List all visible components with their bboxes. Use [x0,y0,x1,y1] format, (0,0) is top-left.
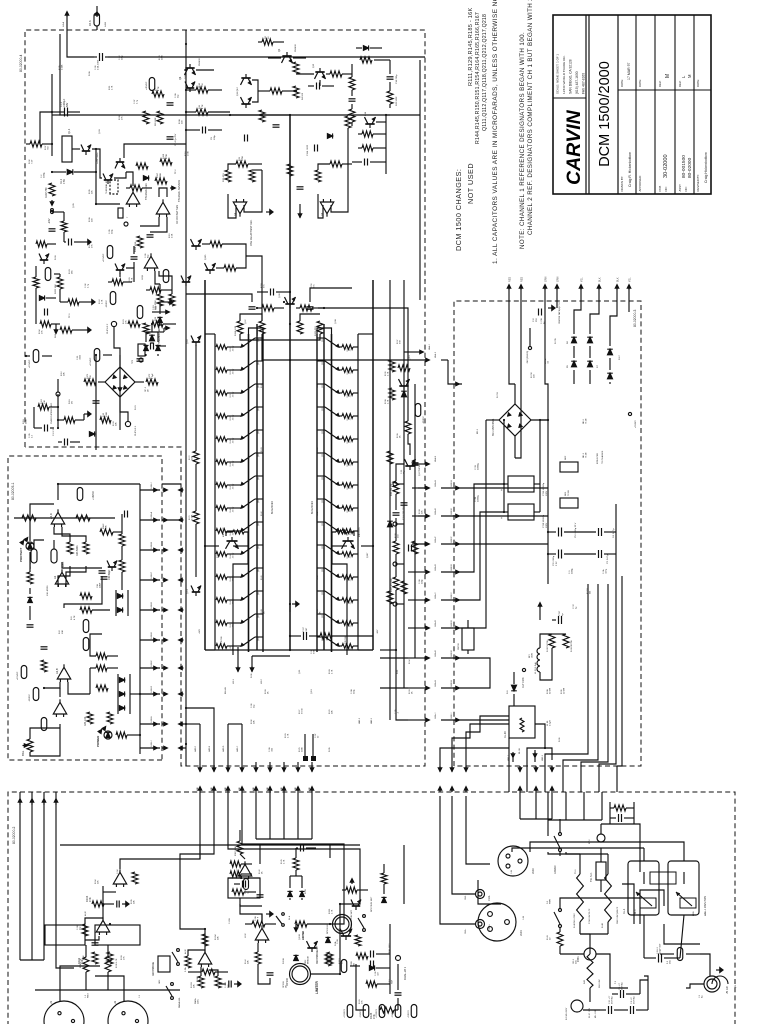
resistor R45 [107,712,113,724]
wire diode feed [573,370,575,384]
wire U32 out [59,688,61,697]
relay RL1 soft start [668,861,699,915]
svg-text:NO:: NO: [664,186,668,191]
two comparator opamps U104 [233,202,247,214]
svg-text:Q216: Q216 [322,499,324,503]
op-amp U31B comparator [55,572,69,584]
wire reg top [51,74,53,156]
resistor R42 MU-220V [587,954,593,988]
svg-text:H1B-D: H1B-D [151,602,153,609]
resistor R709 [563,634,569,648]
svg-text:J103: J103 [531,868,535,874]
svg-text:130: 130 [398,534,400,538]
resistor R20 [362,145,373,151]
resistor R250 emitter lower bank [338,415,342,417]
svg-text:RV-2: RV-2 [589,839,591,844]
wire sec bundle inside supply [508,738,510,766]
switch S1 power [554,912,560,924]
svg-text:R-50: R-50 [261,283,263,288]
svg-text:470K: 470K [166,153,168,159]
transistor Q123 output NPN MJL21193 [242,343,249,348]
capacitor C34 [124,511,126,518]
binding post CH1+ [476,920,485,929]
svg-text:.33 5W: .33 5W [349,415,351,421]
wire AC neutral [686,984,704,988]
svg-text:R-29: R-29 [329,709,331,714]
svg-text:RLY CMN: RLY CMN [522,677,525,688]
wire soft start bus [547,792,549,820]
resistor R251 emitter lower bank [338,392,342,394]
capacitor C66 reg [68,239,70,246]
svg-text:80-02000: 80-02000 [687,157,693,178]
base bus upper bank [248,334,250,652]
svg-text:T-1: T-1 [615,980,617,984]
svg-text:Q157: Q157 [217,552,219,558]
svg-text:Q215: Q215 [322,522,324,526]
capacitor C111 feedback [249,308,256,310]
svg-text:C4 .04 7µ: C4 .04 7µ [613,528,615,538]
ground R04 [84,329,88,331]
svg-text:BLU: BLU [705,911,707,916]
svg-text:CMN: CMN [532,653,534,658]
svg-text:R116: R116 [163,153,165,159]
svg-text:J104: J104 [519,930,523,936]
svg-text:100: 100 [192,456,194,460]
svg-text:R119: R119 [351,960,353,966]
capacitor C117 clip [137,360,144,362]
varistor MOV R-3 MU-110N [571,1000,583,1012]
resistor R147 emitter upper bank [216,483,227,488]
capacitor C67 [131,258,138,260]
svg-text:.33 5W: .33 5W [232,415,234,421]
svg-text:C-06: C-06 [419,579,421,584]
capacitor C33 [41,648,48,650]
svg-text:NOT USED: NOT USED [466,163,475,204]
svg-text:NOTE: CHANNEL 1 REFERENCE DES: NOTE: CHANNEL 1 REFERENCE DESIGNATORS BE… [519,32,526,249]
svg-text:BR1 KBPC3506: BR1 KBPC3506 [492,418,495,436]
op-amp U102A CH2 buffer [198,952,212,964]
svg-text:CH1+: CH1+ [465,928,467,934]
svg-text:4.7K: 4.7K [132,277,134,282]
svg-text:H8-2: H8-2 [261,678,263,684]
svg-text:1.5µH: 1.5µH [550,720,552,726]
capacitor C9 100p [202,127,204,134]
resistor R139 2.7K [389,360,395,372]
svg-text:10K: 10K [106,525,108,529]
svg-text:4.7K: 4.7K [202,104,204,109]
svg-text:C-702: C-702 [545,357,547,364]
svg-text:TS1 N.C.: TS1 N.C. [590,872,593,882]
test point circle [56,392,60,396]
diode D34 [119,692,124,697]
resistor R143b input [230,861,241,867]
svg-text:REV:: REV: [658,80,662,87]
diff pair Q11 [241,103,250,105]
svg-text:47K: 47K [88,897,92,902]
svg-text:H8A-J: H8A-J [428,344,431,350]
resistor R31 VI [387,451,393,464]
svg-text:Q223: Q223 [322,338,324,342]
svg-text:R-26: R-26 [129,277,131,282]
svg-text:H4B: H4B [225,787,227,791]
pill R41 feed [83,620,89,633]
transistor Q222 output PNP MJL21194 [317,360,325,362]
svg-text:H4-B: H4-B [105,21,107,27]
svg-text:Q11 Q12: Q11 Q12 [237,87,239,96]
resistor R30b 10K [38,404,49,410]
svg-text:R-33: R-33 [113,421,115,426]
svg-text:1.5K: 1.5K [172,233,174,238]
svg-text:C3 1 000µ: C3 1 000µ [553,555,555,566]
svg-text:A3: A3 [53,575,57,579]
svg-text:R-8: R-8 [59,630,61,634]
transistor Q117 output NPN MJL21193 [242,481,249,486]
wire diode lim [289,898,291,900]
resistor R31 [27,572,33,584]
pill +15VDC mid [94,349,100,362]
thermal sensor flag [172,186,177,190]
op-amp U107 power amp input [238,864,252,876]
wire cap bank [548,553,556,555]
svg-text:C-203: C-203 [229,917,231,924]
svg-text:.33 5W: .33 5W [349,576,351,582]
svg-text:.0022: .0022 [80,354,82,360]
resistor R119 1.5K [137,236,143,248]
jack J103 speakon [498,846,528,876]
svg-text:R-34: R-34 [409,659,411,664]
op-amp U102 thermal ref [126,192,140,204]
svg-text:U-3C: U-3C [245,933,247,938]
svg-text:.33 5W: .33 5W [349,645,351,651]
transistor Q211 output PNP MJL21194 [317,613,325,615]
flag H9B-2 relay out [534,750,536,762]
resistor R141 emitter upper bank [216,621,227,626]
pill -15VDC pair b [51,549,57,563]
svg-text:GRN: GRN [545,276,548,282]
connector stubs box B bottom [140,747,160,749]
transistor Q60 [40,259,49,261]
svg-text:R-36: R-36 [397,433,399,438]
svg-text:C5 1 000µ 35 V: C5 1 000µ 35 V [575,522,577,538]
resistor C-08 27F chain [252,921,265,927]
svg-text:H9A-D: H9A-D [434,564,437,571]
svg-text:R-28: R-28 [329,669,331,674]
svg-text:C-07: C-07 [315,733,317,738]
resistor R121 332 [317,321,323,334]
relay contact [535,724,545,748]
svg-text:R-3 MU-220V: R-3 MU-220V [566,1007,568,1020]
svg-text:50 5W: 50 5W [550,688,552,694]
svg-text:Q1,2: Q1,2 [68,128,71,134]
wire pills to opamp [34,540,44,549]
svg-text:H4B: H4B [239,787,241,791]
svg-text:10K: 10K [86,956,88,960]
svg-text:Q-08: Q-08 [335,319,337,324]
svg-text:H9A-K: H9A-K [434,455,437,462]
svg-text:MJL21193: MJL21193 [270,501,274,514]
resistor R31b [64,417,75,423]
svg-text:R-38: R-38 [385,399,387,404]
wire H8A flags [236,668,240,673]
wire caps to bridge [503,420,505,512]
diode D10 [363,46,368,51]
relay RL100 [509,706,535,738]
svg-text:D-705: D-705 [555,337,557,344]
svg-text:(F1: (F1 [735,984,737,988]
wire limiter bottom bus [389,924,391,994]
svg-text:R-40: R-40 [261,609,263,614]
svg-text:10K: 10K [62,630,64,634]
resistor R203 feedback [185,956,191,968]
svg-text:C-08: C-08 [351,689,353,694]
svg-text:+: + [500,517,504,519]
capacitor C102 1000uF 50V [64,108,66,117]
pill R51 feed [33,688,39,701]
ground C201 [234,983,238,985]
wire posts to relay bus [440,796,475,924]
svg-text:H1B-G: H1B-G [151,686,153,693]
svg-text:BRIDGE: BRIDGE [308,955,310,964]
svg-text:H9B-B: H9B-B [451,508,453,515]
svg-text:C30 68pF: C30 68pF [108,569,111,580]
svg-text:4.7K: 4.7K [112,85,114,90]
transistor Q217 output PNP MJL21194 [317,475,325,477]
svg-text:2.2: 2.2 [32,434,34,438]
capacitor C-18 220uF 50V [658,954,660,963]
svg-text:R-72: R-72 [189,455,191,460]
diode D106 [327,134,332,139]
svg-text:47p: 47p [80,926,82,930]
wires H4 into amp [199,724,201,762]
svg-text:17 MAR 97: 17 MAR 97 [627,62,631,80]
svg-text:Q123: Q123 [258,338,260,342]
svg-text:C-01: C-01 [95,65,97,70]
svg-text:R-05: R-05 [59,65,61,70]
resistor R14 100 [293,86,299,98]
rail wire lower -V [372,280,374,650]
svg-text:+15VDC: +15VDC [17,671,19,680]
resistor R39 10K [80,607,92,613]
svg-text:Q212: Q212 [322,591,324,595]
switch S4 parallel [166,986,172,996]
svg-text:J5 AC: J5 AC [725,985,729,994]
svg-text:Q-92: Q-92 [187,339,189,344]
svg-text:250V AC: 250V AC [633,996,636,1004]
pill bottom row 1 [347,1005,353,1018]
svg-text:R-07: R-07 [45,145,47,150]
svg-text:100K: 100K [302,747,304,752]
svg-text:DPST/LIM SMT: DPST/LIM SMT [371,896,373,912]
svg-text:22K: 22K [98,880,100,884]
svg-text:4.7K: 4.7K [102,299,104,304]
svg-text:C-09: C-09 [375,971,377,976]
pill -15VDC mid2 [163,270,169,283]
flag -24V F NEG [528,346,531,349]
resistor R252 emitter lower bank [338,369,342,371]
svg-text:R-08: R-08 [179,119,181,124]
svg-text:BRN: BRN [693,911,695,916]
svg-text:R38 F: R38 F [103,523,105,529]
svg-text:M: M [687,74,692,78]
board outline 80-02000-3 power supply board (dashed) [454,301,641,766]
svg-text:D-06: D-06 [89,71,91,76]
ground R205 [88,301,92,303]
resistor R137 [398,365,410,371]
ground aux [266,913,270,915]
resistor R136 bottom [405,421,411,434]
resistor R33 500K [67,542,73,554]
transistor Q6 2N5400 [185,67,194,69]
wire diode row [117,674,119,714]
capacitor C40 line [618,814,620,822]
svg-text:D-03: D-03 [55,255,57,260]
capacitor C21 VI [412,464,419,466]
svg-text:H9B-1: H9B-1 [508,754,510,761]
svg-text:J-04: J-04 [511,869,513,874]
capacitor C142 [267,974,274,976]
svg-text:S-1: S-1 [547,900,549,904]
current source Q192 top [192,341,201,343]
svg-text:R-201: R-201 [191,981,193,988]
svg-text:186: 186 [72,270,74,274]
varistor RV2 [597,834,605,842]
svg-text:C-04: C-04 [117,869,119,874]
arrow flags H2 wires [18,798,22,803]
transformer secondary wires RED GRN YEL BLK [508,766,510,792]
resistor R708 5W [549,634,555,648]
svg-text:47K: 47K [124,956,126,960]
svg-text:4.7K: 4.7K [74,615,76,620]
svg-text:47K: 47K [42,330,44,334]
wire BAL [30,724,60,756]
capacitor C38 10MF [101,578,108,580]
svg-text:R172: R172 [149,373,151,379]
AC inlet J5 [704,976,720,992]
svg-text:Q111: Q111 [258,614,260,618]
svg-text:J-5: J-5 [699,994,701,998]
svg-text:R-26: R-26 [285,733,287,738]
resistor R46 POWER led [116,732,127,738]
svg-text:R-204: R-204 [215,933,217,940]
capacitor C143 [300,845,302,852]
pill R50 feed [21,666,27,679]
svg-text:C-09: C-09 [311,649,313,654]
svg-text:Q-16: Q-16 [409,355,411,360]
connector pairs box A to box D vertical [426,718,431,722]
svg-text:MOUNTED: MOUNTED [597,453,599,464]
svg-text:15A: 15A [669,960,672,964]
svg-text:LIMITER: LIMITER [303,930,305,940]
resistor R38F 10K [100,529,113,535]
svg-text:kkk: kkk [590,590,592,594]
svg-text:7.5V: 7.5V [32,159,34,164]
svg-text:NE2: NE2 [565,455,567,460]
resistor R13b 100K [100,417,111,423]
svg-text:+45VDC: +45VDC [146,81,148,90]
svg-text:C-18 .2: C-18 .2 [657,946,659,954]
ground comparator [266,211,270,213]
rail wire upper +V [204,280,206,650]
svg-text:GRN: GRN [557,276,560,282]
resistor R153 emitter upper bank [216,345,227,350]
transistor Q121 output NPN MJL21193 [242,389,249,394]
svg-text:Q222: Q222 [322,361,324,365]
svg-text:1K: 1K [400,435,402,438]
svg-text:47K: 47K [122,116,124,120]
capacitor C31 [27,626,34,628]
capacitor C704 .047 [598,550,600,558]
svg-text:10: 10 [550,937,552,940]
svg-text:DP100 LB: DP100 LB [327,923,329,934]
diff pair Q12 [241,77,250,79]
flag +45VDC mid [426,462,431,466]
svg-text:BLK: BLK [617,277,620,282]
transistor Q215 output PNP MJL21194 [317,521,325,523]
resistor R37 [83,542,89,554]
diode D63 mid [158,317,163,322]
svg-text:+: + [500,489,504,491]
svg-text:R-54: R-54 [317,383,319,388]
pill R42 feed [83,638,89,651]
LED CLIP-LR2 [111,321,116,326]
capacitor C114 .0022 [314,145,316,152]
svg-text:RED: RED [509,277,512,282]
svg-text:.01: .01 [548,360,550,364]
svg-text:10K: 10K [44,400,46,404]
op-amp U31 mid wiring [62,562,102,568]
arrow flag L100 out [538,602,542,607]
svg-text:D1 2: D1 2 [619,355,621,360]
svg-text:Q112: Q112 [258,591,260,595]
wire Q67 [119,273,121,277]
svg-text:Q13: Q13 [313,63,315,68]
svg-text:2K: 2K [412,691,414,694]
svg-text:RED: RED [521,277,524,282]
svg-text:-15VDC: -15VDC [29,694,31,702]
svg-text:1000µ: 1000µ [572,567,574,574]
capacitor C63 mid [150,343,152,350]
svg-text:80-001500: 80-001500 [681,155,687,178]
trimmer BAL R47 [27,739,33,752]
arrow flag left col [54,330,58,335]
svg-text:.33 5W: .33 5W [232,369,234,375]
capacitor C201 [228,981,230,988]
capacitor C20 VI [401,504,408,506]
svg-text:DRAWN BY:: DRAWN BY: [620,176,624,192]
wire mid-left vertical b [119,355,121,430]
svg-text:F6.N: F6.N [88,20,92,26]
resistor R151 emitter upper bank [216,391,227,396]
resistor R168 driver [336,530,347,534]
svg-text:R33 500K: R33 500K [76,545,79,556]
resistor R103 feedback [82,924,88,936]
svg-text:RLY: RLY [529,653,531,658]
diode D712 [607,349,612,355]
capacitor C705 1000u 35V [558,528,560,537]
transistor Q100 limiter [307,947,316,949]
svg-text:10K: 10K [218,936,220,940]
wire diode row 2 [115,590,117,616]
flag H4-B exit [95,11,99,16]
svg-text:R-05: R-05 [89,189,91,194]
svg-text:M: M [665,74,671,78]
pill +45VDC feed [149,78,155,91]
test point TP2 [124,222,128,226]
svg-text:H1B-E: H1B-E [151,632,153,639]
bias wiring bottom [395,590,397,650]
svg-text:4.7K: 4.7K [332,909,334,914]
resistor R171 clip [84,379,96,385]
